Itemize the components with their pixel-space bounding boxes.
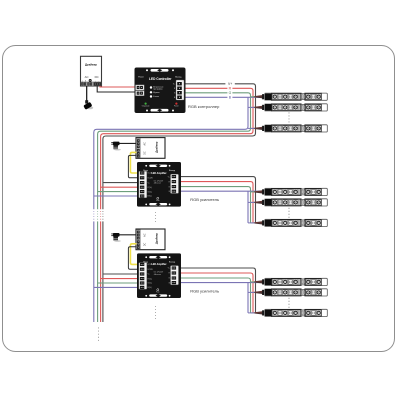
wire V+ A1 output [181, 177, 256, 223]
wire G A1 output [181, 187, 251, 223]
led strip S5 [255, 199, 328, 206]
stubs to strip S2 row [248, 106, 260, 108]
dotted chain continuation below A1 [155, 212, 157, 223]
amplifier A1 [137, 162, 181, 207]
svg-text:программы: программы [153, 88, 163, 90]
mains plug P1 [83, 100, 93, 110]
led strip S3 [255, 125, 328, 132]
stubs to strip S5 row [248, 201, 260, 203]
mains cord PSU3 [117, 234, 136, 236]
taps into amplifier A2 [94, 274, 139, 287]
stubs to strip S8 row [248, 291, 260, 293]
svg-text:RGB усилитель: RGB усилитель [190, 288, 219, 293]
wire V- PSU1 to controller [97, 86, 137, 92]
wire B A1 output [181, 191, 260, 223]
stubs to strip S1 row [251, 96, 261, 98]
led strip S9 [255, 309, 328, 316]
driver PSU3 (rotated) [136, 229, 165, 250]
wire R controller output and loop [101, 88, 253, 322]
dotted continuation strips group 3 [288, 298, 290, 308]
yellow V+ wire PSU3 to A2 [130, 244, 139, 265]
svg-text:LED Controller: LED Controller [149, 77, 172, 81]
stubs to strip S7 row [251, 281, 261, 283]
svg-text:G: G [229, 91, 232, 95]
mains cord of PSU1 [86, 86, 88, 101]
dotted break of left bundle [94, 211, 103, 222]
wire G A2 output [181, 278, 251, 313]
black V- wire PSU2 to A1 [128, 155, 139, 177]
svg-text:Power: Power [174, 105, 179, 108]
stubs to strip S9 row [248, 312, 260, 314]
led strip S8 [255, 289, 328, 296]
svg-text:Кнопка: Кнопка [153, 96, 159, 98]
driver PSU1 [81, 56, 102, 86]
svg-text:AC: AC [85, 75, 89, 79]
svg-text:V+: V+ [228, 82, 232, 86]
stubs to strip S6 row [248, 222, 260, 224]
svg-text:DC: DC [95, 75, 99, 79]
taps into amplifier A1 [94, 183, 139, 196]
stubs to strip S4 row [251, 191, 261, 193]
stubs to strip S3 row [248, 127, 260, 129]
dotted continuation strips group 1 [288, 113, 290, 123]
wire G controller output and loop [98, 93, 251, 322]
yellow V+ wire PSU2 to A1 [130, 152, 139, 173]
mains plug P3 [111, 233, 121, 242]
wire V+ A2 output [181, 268, 256, 313]
svg-text:Драйвер: Драйвер [85, 63, 97, 67]
wire V+ PSU1 to controller [100, 86, 138, 87]
amplifier A2 [137, 253, 181, 298]
dotted end of left bundle [98, 328, 100, 343]
svg-text:Power: Power [138, 77, 144, 79]
wire R A1 output [181, 182, 253, 223]
mains cord PSU2 [117, 142, 136, 144]
svg-text:RGB контроллер: RGB контроллер [188, 104, 220, 109]
svg-text:Музыка: Музыка [153, 92, 159, 94]
wire V+ controller output and loop to amplifiers [103, 84, 256, 322]
wire B controller output and loop [94, 97, 260, 322]
led strip S4 [255, 188, 328, 195]
led strip S7 [255, 278, 328, 285]
led strip S2 [255, 104, 328, 111]
svg-text:Выход: Выход [175, 77, 182, 79]
wire B A2 output [181, 283, 260, 313]
dotted continuation strips group 2 [288, 208, 290, 218]
svg-text:Обучение: Обучение [142, 106, 150, 108]
LED controller U1 [135, 68, 186, 114]
wire R A2 output [181, 273, 253, 313]
led strip S1 [255, 93, 328, 100]
svg-text:RGB усилитель: RGB усилитель [190, 197, 219, 202]
mains plug P2 [111, 142, 121, 151]
led strip S6 [255, 219, 328, 226]
black V- wire PSU3 to A2 [128, 247, 139, 269]
dotted chain continuation below A2 [155, 306, 157, 320]
driver PSU2 (rotated) [136, 138, 165, 159]
